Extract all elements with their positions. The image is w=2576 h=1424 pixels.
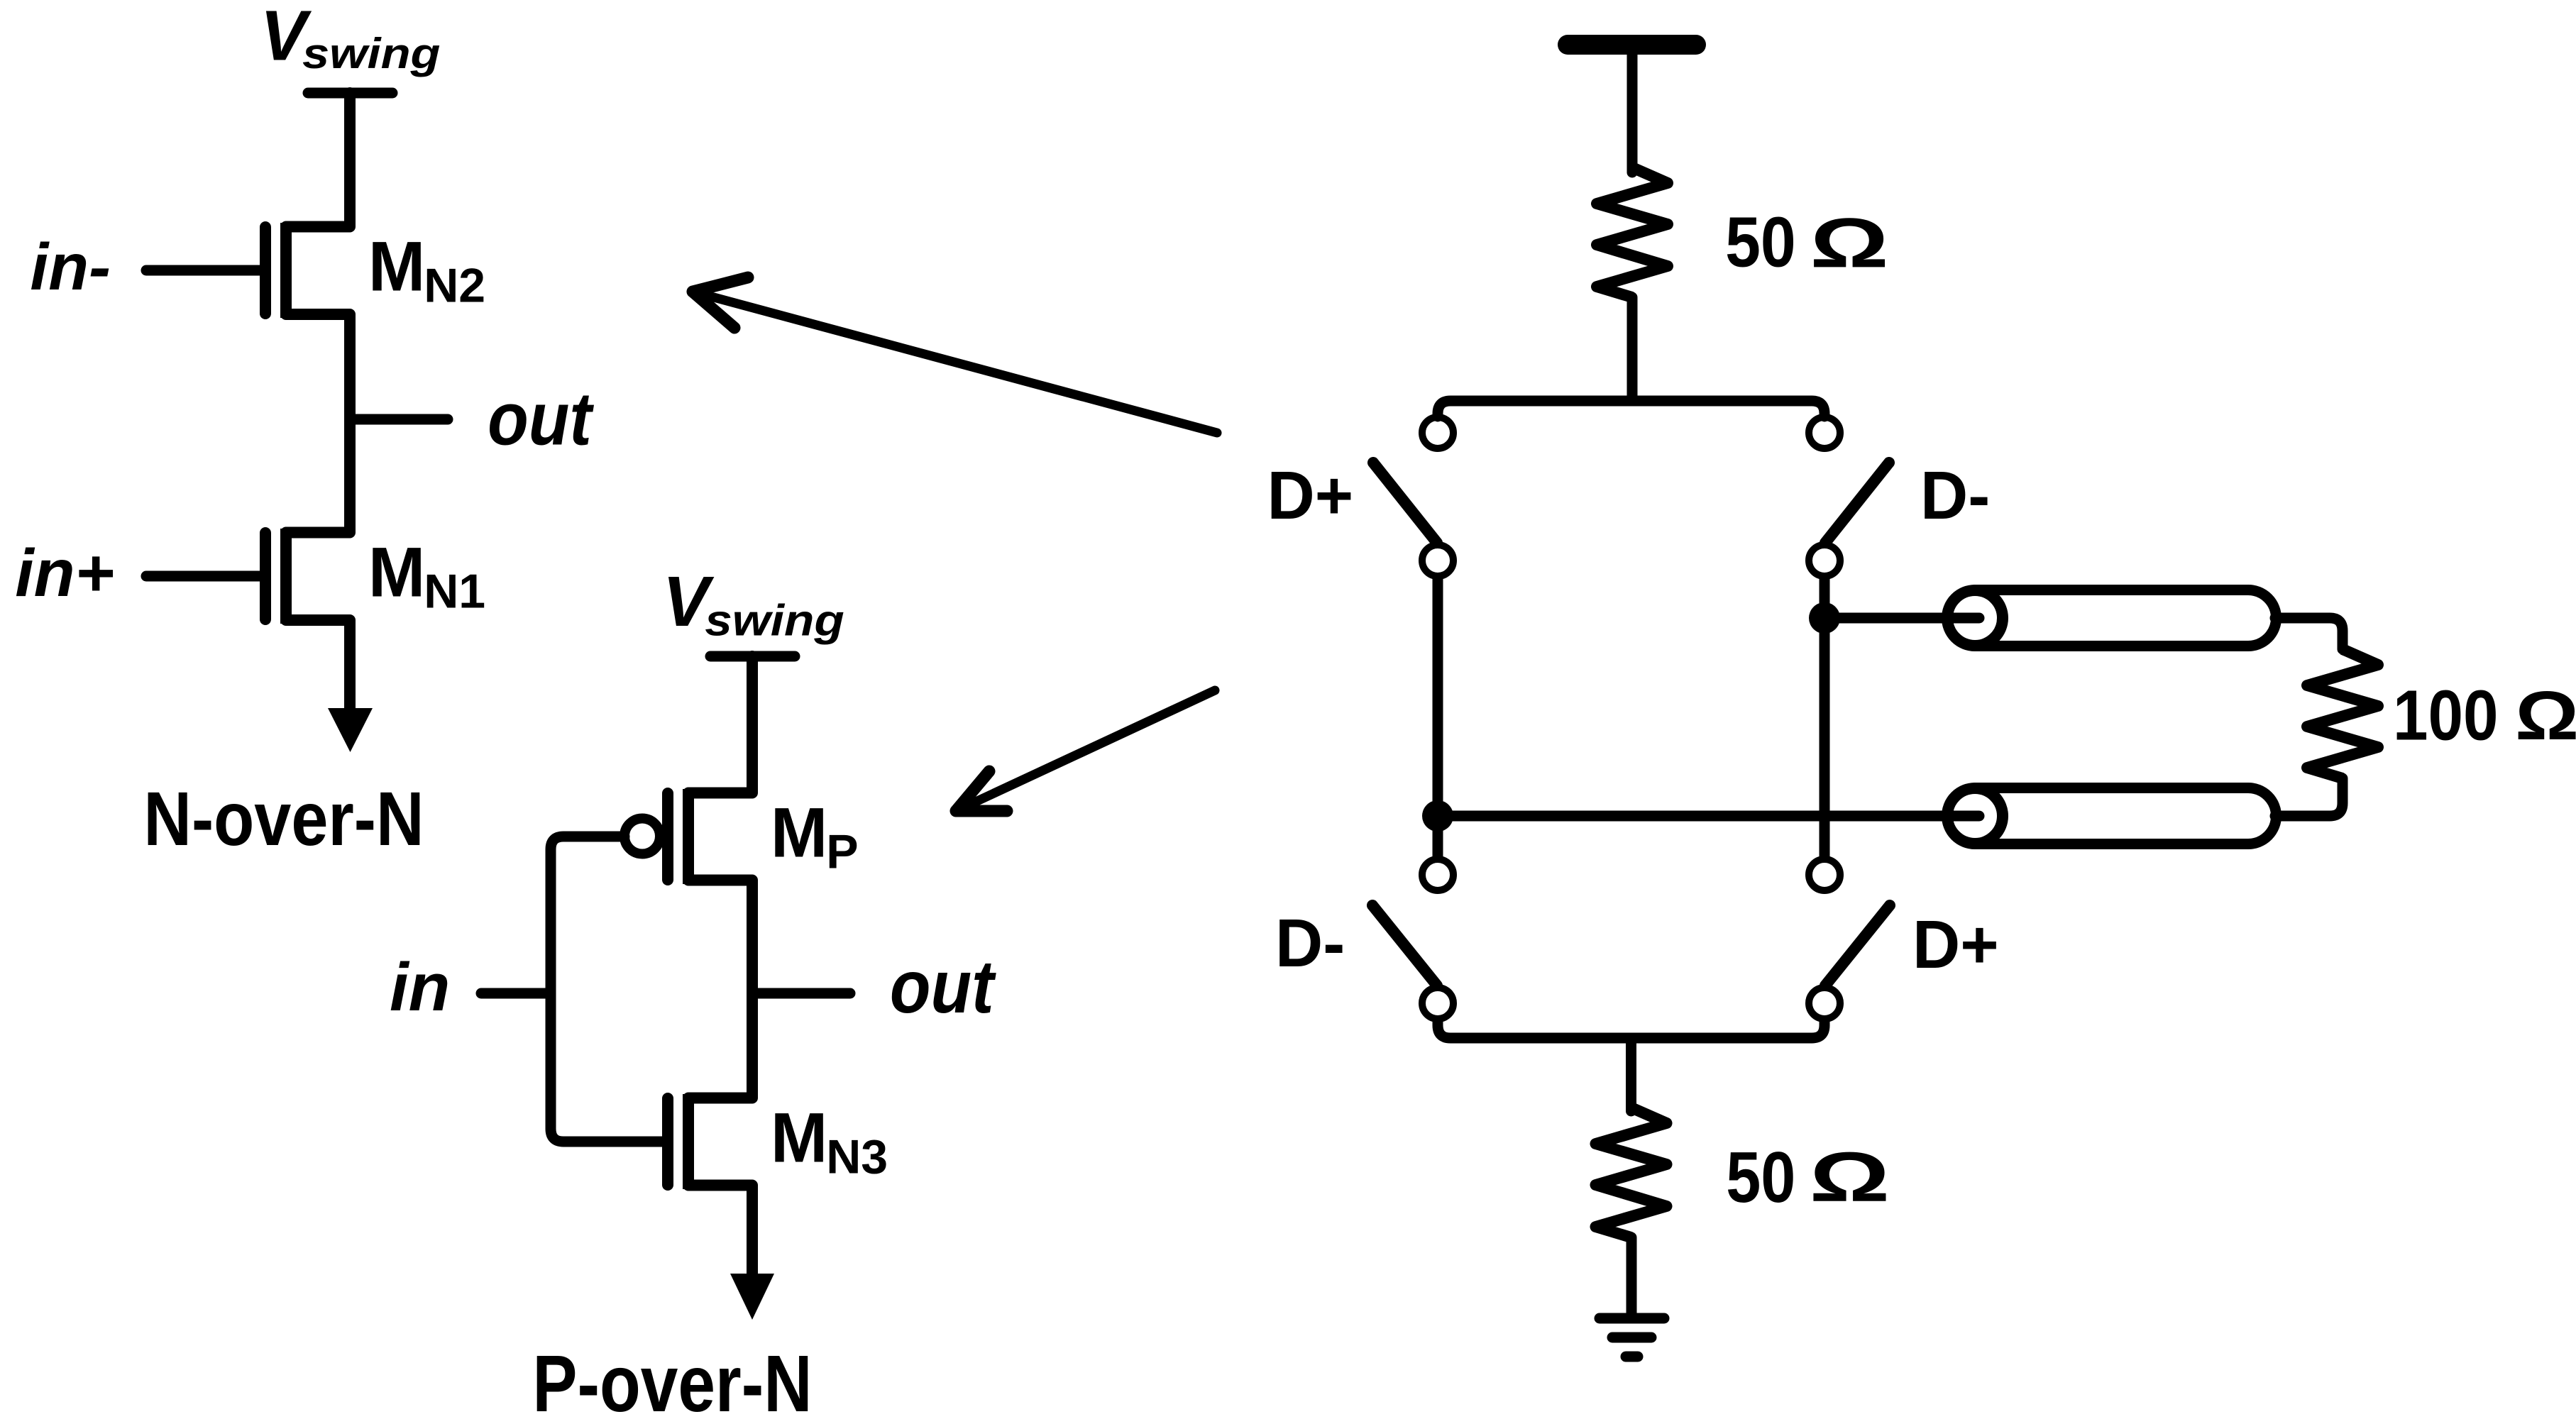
current tail arrow (P-over-N): [688, 1186, 774, 1320]
label 100ohm: [2393, 676, 2499, 756]
top rail wire: [1438, 401, 1824, 416]
wire drain MP to drain MN3: [688, 881, 752, 1098]
wire node to bottom line: [1438, 811, 1979, 822]
wire in lead: [481, 988, 551, 999]
svg-text:D-: D-: [1920, 458, 1990, 534]
label D+ top-left: [1267, 458, 1354, 534]
transistor MP: [624, 789, 688, 884]
label in-: [30, 230, 111, 304]
switch blade D+ top-left: [1373, 463, 1437, 543]
svg-text:M: M: [368, 226, 425, 306]
svg-text:N1: N1: [424, 565, 485, 619]
label out (N-over-N): [488, 377, 594, 460]
svg-text:D-: D-: [1275, 905, 1345, 982]
supply bar Vswing (N-over-N): [308, 88, 392, 99]
label MN3: [771, 1098, 888, 1183]
caption P-over-N: [532, 1340, 812, 1424]
wire node to top line: [1824, 613, 1979, 624]
wire R1 to top rail: [1627, 297, 1638, 399]
arrow to N-over-N: [693, 277, 1217, 433]
svg-text:P-over-N: P-over-N: [532, 1340, 812, 1424]
label D- bottom-left: [1275, 905, 1345, 982]
switch terminal circle BR1: [1809, 859, 1840, 890]
svg-text:Ω: Ω: [1810, 204, 1889, 282]
svg-text:swing: swing: [302, 30, 440, 77]
label 50ohm bottom: [1726, 1137, 1795, 1218]
switch terminal circle TL1: [1422, 417, 1453, 448]
svg-text:in+: in+: [15, 536, 114, 611]
svg-text:M: M: [368, 532, 425, 612]
switch blade D+ bottom-right: [1825, 905, 1890, 986]
current tail arrow (N-over-N): [286, 620, 373, 752]
svg-text:D+: D+: [1267, 458, 1354, 534]
wire source MN2 to drain MN1: [286, 314, 350, 533]
svg-text:out: out: [890, 945, 996, 1029]
switch blade D- bottom-left: [1372, 905, 1437, 986]
bottom rail wire: [1438, 1021, 1824, 1038]
gate rail wire (P-over-N): [551, 837, 663, 1142]
label MN1: [368, 532, 485, 618]
wire R3 to bottom line: [2275, 778, 2343, 816]
label MN2: [368, 226, 485, 312]
svg-text:Ω: Ω: [1810, 1137, 1890, 1216]
wire drain MN2 to supply: [286, 93, 350, 227]
switch terminal circle BL2: [1422, 988, 1453, 1019]
svg-text:swing: swing: [705, 595, 844, 645]
resistor R3 100ohm: [2307, 649, 2378, 778]
supply bar Vswing (P-over-N): [710, 651, 795, 662]
arrow to P-over-N: [956, 690, 1215, 811]
switch blade D- top-right: [1825, 463, 1889, 543]
label in+: [15, 536, 114, 611]
junction node right: [1809, 602, 1840, 634]
node out stub (P-over-N): [752, 988, 850, 999]
label in (P-over-N): [390, 949, 450, 1025]
transistor MN1: [146, 529, 286, 624]
switch terminal circle BR2: [1809, 988, 1840, 1019]
resistor R1 50ohm: [1597, 167, 1668, 297]
transmission line top: [1947, 590, 2277, 646]
label D- top-right: [1920, 458, 1990, 534]
svg-text:50: 50: [1726, 1137, 1795, 1218]
ground: [1600, 1318, 1664, 1357]
net label Vswing (N-over-N): [260, 0, 441, 77]
svg-text:out: out: [488, 377, 594, 460]
svg-text:M: M: [771, 793, 827, 872]
svg-text:P: P: [826, 825, 858, 879]
junction node left: [1422, 800, 1453, 832]
node out stub (N-over-N): [350, 414, 448, 425]
supply rail bar: [1568, 35, 1696, 55]
wire bottom rail to R2: [1626, 1038, 1636, 1111]
net label Vswing (P-over-N): [663, 562, 844, 644]
wire source MP to supply: [688, 656, 752, 793]
svg-text:50: 50: [1725, 203, 1796, 282]
wire right leg vertical: [1820, 578, 1830, 857]
svg-text:Ω: Ω: [2515, 678, 2576, 754]
label D+ bottom-right: [1912, 907, 1999, 983]
switch terminal circle TL2: [1422, 545, 1453, 576]
switch terminal circle TR2: [1809, 545, 1840, 576]
transistor MN3: [668, 1094, 688, 1189]
switch terminal circle BL1: [1422, 859, 1453, 890]
wire R2 to ground: [1626, 1237, 1637, 1315]
svg-text:N2: N2: [424, 259, 485, 313]
svg-text:M: M: [771, 1098, 827, 1177]
wire supply to R1: [1627, 50, 1638, 172]
switch terminal circle TR1: [1809, 417, 1840, 448]
wire left leg vertical: [1433, 578, 1443, 857]
label 50ohm top: [1725, 203, 1796, 282]
transmission line bottom: [1947, 788, 2277, 844]
svg-text:in: in: [390, 949, 450, 1025]
label out (P-over-N): [890, 945, 996, 1029]
transistor MN2: [146, 223, 286, 318]
svg-text:in-: in-: [30, 230, 111, 304]
svg-text:N-over-N: N-over-N: [143, 777, 424, 861]
wire top line to R3: [2275, 618, 2343, 649]
svg-text:100: 100: [2393, 676, 2499, 756]
resistor R2 50ohm: [1596, 1108, 1667, 1237]
svg-text:D+: D+: [1912, 907, 1999, 983]
svg-text:N3: N3: [826, 1130, 888, 1184]
label MP: [771, 793, 859, 878]
caption N-over-N: [143, 777, 424, 861]
